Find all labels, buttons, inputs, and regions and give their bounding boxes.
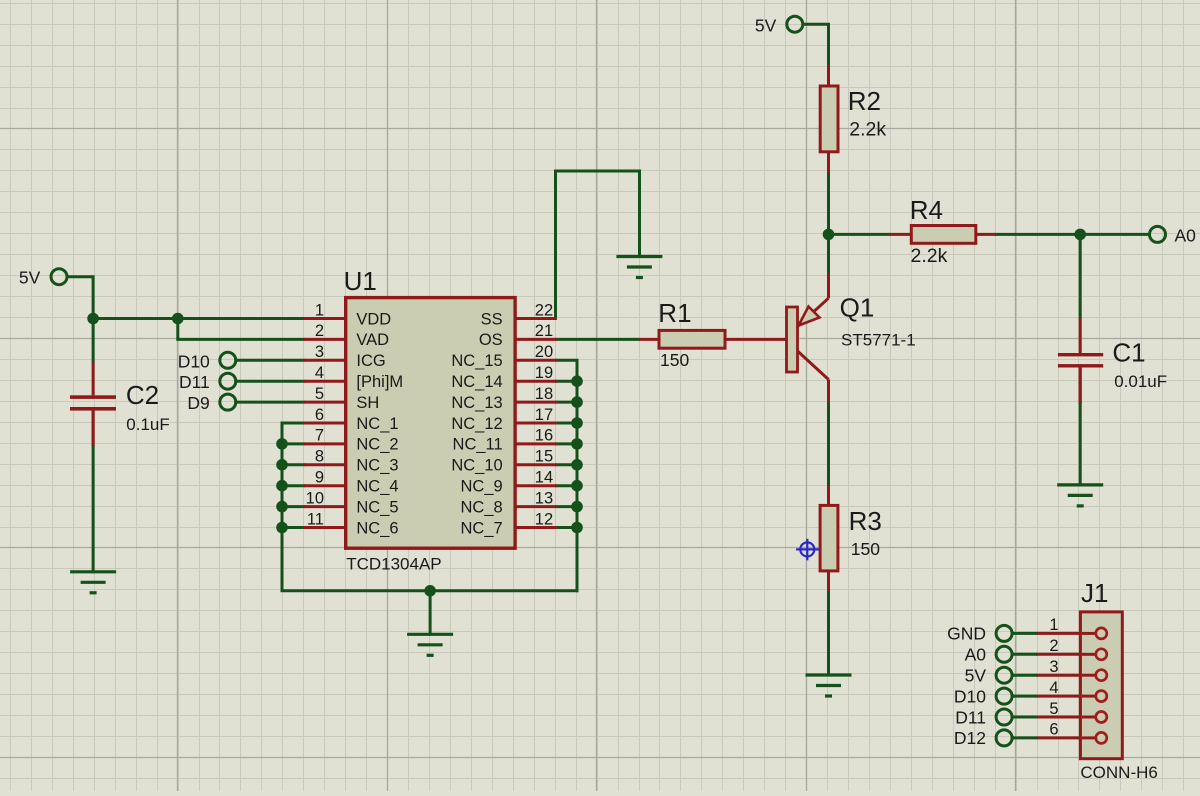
svg-text:NC_14: NC_14 bbox=[451, 373, 502, 391]
svg-text:11: 11 bbox=[307, 510, 324, 528]
svg-text:GND: GND bbox=[947, 624, 986, 644]
svg-text:4: 4 bbox=[315, 364, 324, 382]
svg-text:2: 2 bbox=[1049, 637, 1058, 655]
svg-text:6: 6 bbox=[315, 406, 324, 424]
svg-text:NC_15: NC_15 bbox=[451, 352, 502, 370]
svg-text:[Phi]M: [Phi]M bbox=[356, 373, 403, 391]
svg-text:TCD1304AP: TCD1304AP bbox=[346, 555, 441, 574]
svg-text:2.2k: 2.2k bbox=[911, 245, 948, 267]
svg-text:NC_3: NC_3 bbox=[356, 457, 398, 475]
svg-text:0.1uF: 0.1uF bbox=[126, 415, 169, 434]
svg-text:5: 5 bbox=[315, 385, 324, 403]
svg-text:8: 8 bbox=[315, 448, 324, 466]
svg-text:NC_9: NC_9 bbox=[461, 478, 503, 496]
svg-text:17: 17 bbox=[535, 406, 553, 424]
svg-text:R4: R4 bbox=[910, 195, 943, 225]
svg-text:1: 1 bbox=[315, 301, 324, 319]
svg-text:21: 21 bbox=[535, 322, 553, 340]
svg-text:22: 22 bbox=[535, 301, 553, 319]
svg-text:NC_2: NC_2 bbox=[356, 436, 398, 454]
svg-text:NC_13: NC_13 bbox=[451, 394, 502, 412]
svg-text:5V: 5V bbox=[755, 15, 777, 35]
svg-text:D12: D12 bbox=[954, 728, 986, 748]
svg-text:ICG: ICG bbox=[356, 352, 385, 370]
svg-text:NC_12: NC_12 bbox=[451, 415, 502, 433]
svg-text:NC_10: NC_10 bbox=[451, 457, 502, 475]
svg-text:NC_1: NC_1 bbox=[356, 415, 398, 433]
svg-text:9: 9 bbox=[315, 469, 324, 487]
svg-text:10: 10 bbox=[306, 489, 324, 507]
svg-text:20: 20 bbox=[535, 343, 553, 361]
svg-text:5V: 5V bbox=[965, 666, 987, 686]
svg-text:5V: 5V bbox=[19, 267, 41, 287]
svg-text:5: 5 bbox=[1049, 700, 1058, 718]
svg-text:A0: A0 bbox=[1175, 226, 1197, 246]
svg-text:R3: R3 bbox=[849, 506, 882, 536]
svg-text:18: 18 bbox=[535, 385, 553, 403]
svg-text:J1: J1 bbox=[1081, 578, 1108, 608]
svg-text:OS: OS bbox=[479, 331, 503, 349]
svg-text:NC_5: NC_5 bbox=[356, 498, 398, 516]
svg-text:Q1: Q1 bbox=[840, 293, 875, 323]
svg-text:VDD: VDD bbox=[356, 310, 391, 328]
svg-text:1: 1 bbox=[1049, 616, 1058, 634]
svg-text:2.2k: 2.2k bbox=[849, 118, 886, 140]
svg-text:15: 15 bbox=[535, 448, 553, 466]
svg-text:NC_8: NC_8 bbox=[461, 498, 503, 516]
svg-text:0.01uF: 0.01uF bbox=[1114, 372, 1167, 391]
svg-text:NC_11: NC_11 bbox=[453, 436, 503, 454]
svg-text:D9: D9 bbox=[187, 393, 209, 413]
svg-text:R1: R1 bbox=[658, 298, 691, 328]
svg-text:150: 150 bbox=[660, 350, 689, 370]
svg-text:C2: C2 bbox=[126, 380, 159, 410]
svg-text:16: 16 bbox=[535, 427, 553, 445]
svg-text:3: 3 bbox=[1049, 658, 1058, 676]
svg-text:D11: D11 bbox=[179, 372, 210, 392]
svg-text:NC_7: NC_7 bbox=[461, 519, 503, 537]
svg-text:SS: SS bbox=[481, 310, 503, 328]
svg-text:6: 6 bbox=[1049, 721, 1058, 739]
svg-text:2: 2 bbox=[315, 322, 324, 340]
svg-text:SH: SH bbox=[356, 394, 379, 412]
svg-text:NC_4: NC_4 bbox=[356, 478, 398, 496]
svg-text:4: 4 bbox=[1049, 679, 1058, 697]
svg-text:ST5771-1: ST5771-1 bbox=[841, 330, 916, 349]
svg-text:C1: C1 bbox=[1112, 338, 1145, 368]
svg-text:12: 12 bbox=[535, 510, 553, 528]
svg-text:D11: D11 bbox=[955, 707, 986, 727]
svg-text:NC_6: NC_6 bbox=[356, 519, 398, 537]
svg-text:CONN-H6: CONN-H6 bbox=[1080, 763, 1157, 782]
svg-text:A0: A0 bbox=[965, 645, 987, 665]
svg-text:VAD: VAD bbox=[356, 331, 389, 349]
svg-text:150: 150 bbox=[851, 539, 880, 559]
svg-text:19: 19 bbox=[535, 364, 553, 382]
svg-text:7: 7 bbox=[315, 427, 324, 445]
svg-text:D10: D10 bbox=[178, 351, 210, 371]
svg-text:3: 3 bbox=[315, 343, 324, 361]
svg-text:13: 13 bbox=[535, 489, 553, 507]
svg-text:D10: D10 bbox=[954, 686, 986, 706]
svg-text:R2: R2 bbox=[848, 86, 881, 116]
svg-text:U1: U1 bbox=[344, 266, 377, 296]
svg-text:14: 14 bbox=[535, 469, 553, 487]
